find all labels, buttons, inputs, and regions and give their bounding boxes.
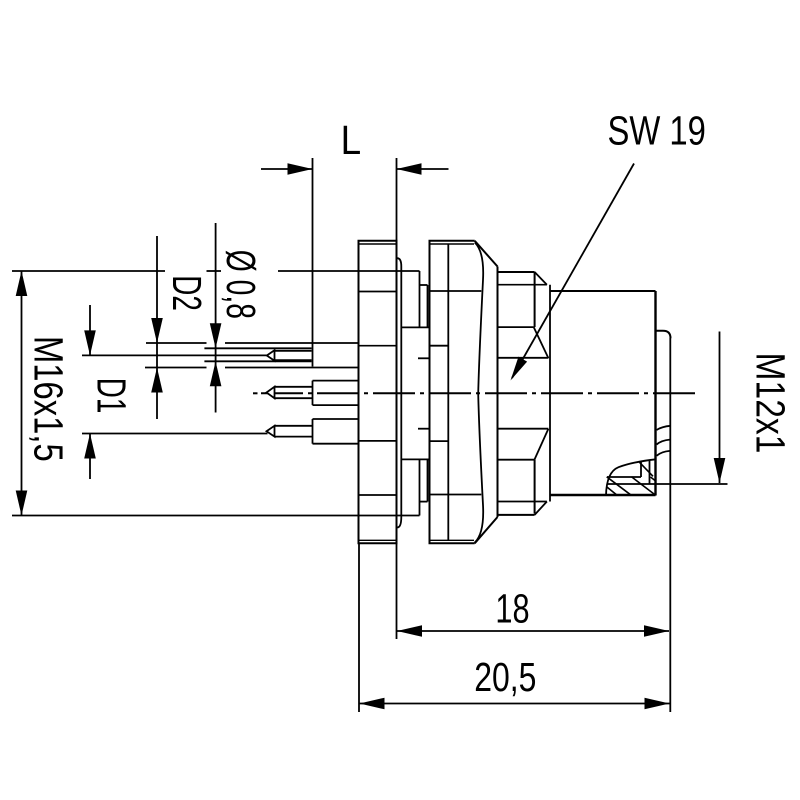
svg-text:Ø 0,8: Ø 0,8 bbox=[218, 250, 263, 319]
svg-text:M12x1: M12x1 bbox=[748, 353, 794, 454]
svg-text:M16x1,5: M16x1,5 bbox=[26, 336, 72, 462]
svg-text:SW 19: SW 19 bbox=[608, 107, 706, 153]
svg-text:20,5: 20,5 bbox=[474, 654, 536, 700]
svg-text:D1: D1 bbox=[88, 378, 134, 414]
svg-text:D2: D2 bbox=[164, 275, 210, 311]
svg-text:18: 18 bbox=[495, 585, 529, 631]
svg-text:L: L bbox=[341, 118, 362, 163]
